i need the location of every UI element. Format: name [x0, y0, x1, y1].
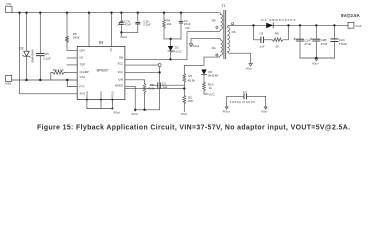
- wire secondary top to D1: [229, 24, 266, 26]
- IC U1 MP8007: [77, 41, 125, 100]
- svg-text:VCC: VCC: [118, 61, 124, 65]
- svg-text:VCC: VCC: [208, 92, 215, 96]
- svg-text:C7: C7: [243, 90, 247, 94]
- svg-text:U1: U1: [99, 41, 104, 45]
- wire aux bottom to sense: [204, 57, 219, 65]
- ground C7 left PGND: [223, 96, 230, 113]
- resistor R6 41.2: [51, 68, 77, 80]
- svg-text:PGND: PGND: [100, 91, 103, 98]
- pin labels right: [115, 56, 124, 88]
- wire output ground rail: [300, 57, 334, 59]
- svg-text:MODE: MODE: [115, 84, 123, 88]
- resistor R10 1k: [203, 82, 214, 94]
- wire FB from IC to divider: [125, 88, 184, 90]
- wire jog to FTY row: [67, 80, 77, 87]
- svg-text:47uF: 47uF: [321, 42, 328, 46]
- diode D2 BAV21 clamp: [168, 39, 182, 60]
- ground VOut- secondary: [312, 57, 319, 66]
- wire C7A to C10 bottom: [121, 31, 137, 33]
- resistor R3 49.9k: [143, 80, 155, 110]
- capacitor C10 2.2uF: [136, 13, 151, 33]
- svg-text:13k: 13k: [166, 22, 171, 26]
- node rail junction dots: [18, 12, 182, 14]
- node FB junction: [183, 87, 185, 89]
- wire secondary bottom return: [229, 53, 251, 63]
- svg-text:NS: NS: [232, 30, 236, 34]
- svg-text:D1 SBR8U60P5: D1 SBR8U60P5: [261, 18, 295, 22]
- capacitor C2C 470uF: [331, 25, 348, 58]
- node D2 on SW wire: [169, 58, 171, 60]
- net POut stub: [120, 32, 127, 39]
- ground R2 PGnd: [181, 113, 188, 116]
- svg-text:PGND: PGND: [112, 91, 115, 98]
- capacitor C5: [36, 13, 50, 80]
- aux winding NA: [219, 38, 223, 57]
- svg-text:1uF: 1uF: [162, 85, 167, 89]
- svg-text:VOut-: VOut-: [312, 61, 319, 65]
- wire R1/D6 tie: [184, 64, 204, 66]
- svg-text:PGnd: PGnd: [132, 113, 139, 116]
- core: [224, 10, 226, 58]
- phase dot primary: [216, 26, 218, 28]
- wire VDD column to comp ground: [159, 72, 161, 109]
- svg-text:DET: DET: [80, 49, 86, 53]
- node output cap taps: [299, 24, 301, 26]
- svg-text:D3: D3: [19, 47, 23, 51]
- IC bottom pins: [87, 100, 113, 109]
- svg-text:47uF: 47uF: [124, 22, 131, 26]
- ground C7 right VOut-: [261, 96, 268, 113]
- svg-text:470uF: 470uF: [339, 42, 348, 46]
- svg-text:Vout: Vout: [355, 24, 361, 28]
- wire SW drain to primary bottom: [125, 32, 219, 60]
- diode D6 1N4148: [201, 70, 218, 83]
- svg-text:3.1uF: 3.1uF: [43, 57, 51, 61]
- svg-text:Figure 15: Flyback Application: Figure 15: Flyback Application Circuit, …: [37, 125, 350, 132]
- wire top VIN rail: [12, 13, 221, 15]
- svg-text:FTY: FTY: [80, 84, 85, 88]
- VSS terminal: [5, 75, 12, 85]
- svg-text:VOut-: VOut-: [246, 66, 253, 70]
- svg-text:VIN: VIN: [6, 2, 11, 6]
- wire VSS ground rail: [12, 79, 78, 81]
- wire MODE row to ground bus: [125, 87, 160, 110]
- svg-text:BAV21: BAV21: [171, 49, 182, 53]
- wire rail to IC top pin NC: [111, 13, 113, 41]
- pin labels left: [80, 49, 89, 96]
- snubber C6/R9: [254, 25, 289, 48]
- capacitor C2B 47uF: [310, 25, 328, 58]
- svg-text:SW: SW: [119, 56, 124, 60]
- wire R4/C4 bottom join: [164, 38, 181, 40]
- svg-text:NA: NA: [212, 46, 216, 50]
- svg-text:2.2uF: 2.2uF: [143, 22, 151, 26]
- svg-text:1k: 1k: [209, 86, 213, 90]
- svg-text:NP: NP: [186, 26, 190, 30]
- svg-text:1000p/2000V: 1000p/2000V: [230, 100, 256, 104]
- tie loop symbol: [158, 64, 161, 67]
- resistor R4 13k: [163, 13, 172, 39]
- svg-text:R9: R9: [275, 32, 279, 36]
- pin labels bottom: [86, 91, 115, 98]
- svg-text:20: 20: [275, 44, 279, 48]
- resistor R5 243K: [66, 13, 80, 51]
- svg-text:MP6007: MP6007: [97, 69, 109, 73]
- svg-text:C6: C6: [259, 32, 263, 36]
- svg-text:49.9k: 49.9k: [147, 87, 155, 91]
- svg-text:VSS: VSS: [5, 82, 11, 86]
- svg-text:NP: NP: [212, 18, 216, 22]
- net VCC label: [208, 92, 215, 96]
- svg-text:NC: NC: [80, 56, 84, 60]
- svg-text:20K: 20K: [188, 99, 193, 103]
- svg-text:PGnd: PGnd: [193, 44, 200, 48]
- wire VIN sense column: [20, 13, 78, 94]
- svg-text:PGnd: PGnd: [114, 112, 121, 115]
- node snubber: [252, 24, 254, 26]
- capacitor C7 1000p/2000V Y-cap: [227, 90, 266, 104]
- net VOut- secondary return: [246, 63, 253, 70]
- svg-text:VCC: VCC: [118, 70, 124, 74]
- capacitor C3 1uF: [151, 81, 185, 89]
- svg-text:SGND: SGND: [86, 91, 89, 98]
- svg-text:243K: 243K: [73, 36, 80, 40]
- capacitor C2A 47uF: [294, 25, 312, 58]
- svg-text:NC: NC: [109, 48, 112, 52]
- svg-text:AXS: AXS: [80, 92, 86, 96]
- pin stub NC: [67, 57, 77, 59]
- wire COMP: [125, 79, 145, 81]
- node rail dots: [25, 79, 27, 81]
- wire rail to IC top pin 1: [88, 13, 90, 47]
- ground comp PGnd: [132, 110, 139, 116]
- resistor R2 20k: [183, 89, 193, 112]
- svg-text:SMAJ58A: SMAJ58A: [30, 48, 34, 63]
- svg-text:PGnd: PGnd: [181, 113, 188, 116]
- VIN terminal: [6, 2, 12, 12]
- svg-text:ILIM: ILIM: [118, 77, 124, 81]
- svg-text:49.9k: 49.9k: [188, 78, 196, 82]
- ground IC PGnd: [111, 108, 120, 115]
- svg-text:T1: T1: [221, 4, 225, 8]
- diode D1 SBR8U60P5: [261, 18, 348, 28]
- transformer T1: [212, 4, 236, 59]
- capacitor C4 10nF: [179, 13, 191, 39]
- primary winding: [219, 14, 223, 31]
- capacitor C7A 47uF (bulk): [118, 13, 131, 33]
- svg-text:VOut-: VOut-: [261, 110, 268, 114]
- node: [169, 38, 171, 40]
- svg-text:R6 41.2: R6 41.2: [53, 68, 64, 72]
- phase dot aux: [216, 54, 218, 56]
- pin stub TOP: [67, 64, 77, 66]
- wire VCC/VDD tie: [125, 65, 160, 72]
- svg-text:47uF: 47uF: [304, 42, 311, 46]
- svg-text:C5: C5: [45, 52, 49, 56]
- secondary winding NS: [227, 25, 229, 53]
- svg-text:1nF: 1nF: [259, 44, 264, 48]
- svg-text:VTH: VTH: [80, 75, 85, 79]
- node C7A bottom: [120, 31, 122, 33]
- svg-text:TOP: TOP: [80, 63, 86, 67]
- svg-text:CLAMP: CLAMP: [80, 70, 89, 74]
- Vout terminal: [341, 13, 361, 28]
- ground aux PGND: [189, 44, 200, 48]
- svg-text:PGnd: PGnd: [120, 35, 127, 39]
- svg-text:5V@2.5A: 5V@2.5A: [341, 13, 360, 18]
- svg-text:PGnd: PGnd: [223, 110, 230, 114]
- diode D3 SMAJ58A TVS: [19, 13, 34, 80]
- svg-text:1N4148: 1N4148: [207, 74, 218, 78]
- resistor R1 49.9k: [183, 65, 195, 88]
- wire aux top to PGND: [191, 38, 219, 43]
- phase dot secondary: [232, 23, 234, 25]
